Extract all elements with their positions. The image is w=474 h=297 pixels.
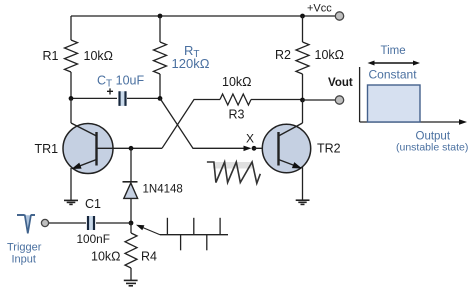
- resistor RT: [154, 16, 167, 99]
- svg-text:Vout: Vout: [328, 77, 353, 89]
- time constant double arrow: [372, 62, 415, 64]
- signal direction arrow into TR2 base: [244, 146, 252, 152]
- wire diode top: [130, 148, 132, 182]
- node dot R1 bottom: [69, 96, 74, 101]
- trigger input terminal: [41, 219, 48, 226]
- ground R4: [124, 280, 138, 285]
- svg-text:1N4148: 1N4148: [143, 184, 183, 196]
- svg-text:C1: C1: [85, 197, 101, 211]
- capacitor CT: [119, 91, 126, 106]
- node dot top of RT: [158, 14, 163, 19]
- node dot RT bottom: [158, 96, 163, 101]
- wire CT to RT bottom: [127, 97, 160, 99]
- wire TR1 collector: [70, 98, 72, 123]
- wire TR2 emitter to ground: [302, 167, 304, 200]
- wire TR2 collector: [302, 100, 304, 123]
- output pulse rectangle: [368, 85, 421, 122]
- svg-text:Trigger: Trigger: [7, 242, 42, 254]
- wire cross-couple TR1 base to R3: [162, 100, 220, 149]
- node dot X: [252, 146, 257, 151]
- resistor R1: [65, 16, 78, 99]
- output graph y-axis: [359, 67, 361, 122]
- resistor R2: [296, 16, 309, 100]
- svg-text:R3: R3: [229, 108, 245, 122]
- transistor TR1: [63, 123, 113, 174]
- svg-text:X: X: [246, 132, 254, 146]
- svg-text:(unstable state): (unstable state): [396, 142, 468, 154]
- resistor R4: [125, 223, 137, 280]
- node dot top of R2: [300, 14, 305, 19]
- wire R3 to Vout node: [251, 99, 303, 101]
- svg-text:R2: R2: [275, 48, 291, 62]
- svg-text:R4: R4: [141, 250, 157, 264]
- node dot TR1 base / diode: [129, 146, 134, 151]
- svg-text:10kΩ: 10kΩ: [222, 75, 252, 89]
- ground TR1: [64, 200, 78, 204]
- wire to Vout terminal: [303, 99, 337, 101]
- svg-text:10kΩ: 10kΩ: [84, 49, 114, 63]
- sawtooth waveform annotation: [207, 162, 260, 183]
- wire X to TR2 base: [254, 147, 278, 149]
- svg-text:Input: Input: [12, 254, 36, 266]
- Vcc terminal: [335, 12, 343, 20]
- trigger pulse glyph: [17, 215, 35, 234]
- wire trigger terminal to C1: [49, 222, 86, 224]
- wire TR1 emitter to ground: [70, 168, 72, 200]
- svg-text:Time: Time: [381, 45, 406, 57]
- svg-text:100nF: 100nF: [77, 232, 110, 246]
- node dot trigger junction: [129, 221, 134, 226]
- transistor TR2: [262, 123, 310, 173]
- svg-text:CT 10uF: CT 10uF: [97, 74, 144, 90]
- trigger pulses annotation: [160, 218, 228, 251]
- svg-text:120kΩ: 120kΩ: [172, 56, 210, 71]
- wire diode bottom to trigger node: [130, 198, 132, 223]
- resistor R3: [220, 94, 251, 105]
- output graph x-axis: [360, 121, 459, 123]
- annotation pointer to trigger node: [140, 226, 160, 234]
- wire node R1 bottom to CT: [71, 97, 117, 99]
- svg-text:10kΩ: 10kΩ: [91, 250, 121, 264]
- wire TR1 base: [113, 147, 162, 149]
- diode D1 1N4148: [123, 182, 138, 199]
- svg-text:Constant: Constant: [369, 68, 418, 82]
- svg-text:10kΩ: 10kΩ: [315, 48, 345, 62]
- wire C1 to trigger node: [96, 222, 131, 224]
- svg-text:TR1: TR1: [35, 142, 59, 156]
- Vout terminal: [335, 96, 343, 104]
- wire cross-couple RT bottom to TR2 base: [160, 98, 244, 148]
- capacitor C1: [88, 216, 94, 230]
- top Vcc rail wire: [71, 15, 336, 17]
- svg-text:TR2: TR2: [317, 142, 341, 156]
- svg-text:+Vcc: +Vcc: [307, 3, 332, 15]
- node dot Vout junction: [300, 98, 305, 103]
- ground TR2: [296, 200, 310, 204]
- svg-text:R1: R1: [43, 49, 59, 63]
